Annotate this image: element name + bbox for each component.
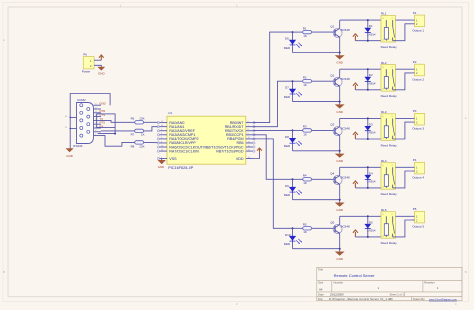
wire LED return [293,52,340,54]
svg-text:COM2: COM2 [77,98,86,102]
svg-text:U1: U1 [168,111,172,115]
U1 right pins [246,121,255,159]
svg-text:Output 2: Output 2 [412,77,424,81]
svg-text:Output 3: Output 3 [412,127,424,131]
svg-text:Remote Control Server: Remote Control Server [334,273,376,278]
svg-text:VSS: VSS [169,157,177,161]
svg-text:B: B [465,270,467,274]
svg-text:RL4: RL4 [381,159,387,163]
svg-text:Number: Number [334,281,344,285]
wire relay to P2 pin2 [393,73,412,90]
wire junction serial [114,127,116,133]
relay RL2 switch [392,69,394,76]
wire RB2 to stage3 [253,129,293,131]
wire stage 1 input row [293,31,303,33]
wire Q2 collector to relay coil [339,69,341,77]
svg-text:Q2: Q2 [330,74,334,78]
relay RL2 coil [385,69,387,76]
svg-text:Reed Relay: Reed Relay [381,143,398,147]
relay RL5 coil [385,216,387,223]
ground symbol stage 1 [335,55,345,59]
ground symbol (power section) [97,67,105,71]
svg-text:RED: RED [284,193,291,197]
wire RB3 to stage4 [253,135,293,179]
wire TX to R6 [101,120,135,122]
resistor R7 1K [135,129,144,132]
power VCC arrow stage 2 [353,83,358,90]
svg-text:VDD: VDD [236,157,244,161]
wire VCC to relay coil bottom [355,187,386,189]
power VCC arrow (top-left) [99,55,104,60]
ground symbol stage 3 [335,154,345,158]
svg-text:1N914: 1N914 [367,180,376,184]
svg-text:Title: Title [318,268,323,272]
wire VCC to relay coil bottom [355,40,386,42]
svg-text:Revision: Revision [424,281,435,285]
wire R4 to Q4 base [312,178,335,180]
svg-text:D1: D1 [369,24,373,28]
svg-text:Q5: Q5 [330,221,334,225]
wire relay to P5 pin2 [393,220,412,237]
svg-text:D6: D6 [285,37,289,41]
svg-text:www.CircuitDiagram.com: www.CircuitDiagram.com [429,298,457,301]
wire R2 to Q2 base [312,80,335,82]
wire relay to P3 pin2 [393,122,412,139]
power VCC arrow stage 5 [353,230,358,237]
svg-text:D3: D3 [369,122,373,126]
wire relay to P4 pin1 [396,166,412,168]
wire RB1 to stage2 [253,81,293,126]
wire VCC to relay coil bottom [355,138,386,140]
wire relay to P2 pin1 [396,68,412,70]
svg-text:Reed Relay: Reed Relay [381,45,398,49]
wire Q1 collector to relay coil [339,20,341,28]
relay RL1 switch [392,20,394,27]
svg-text:D7: D7 [285,86,289,90]
svg-text:1N914: 1N914 [367,82,376,86]
svg-text:R7: R7 [131,133,135,137]
U1 pin names [169,121,244,161]
svg-text:D5: D5 [369,220,373,224]
svg-text:1K: 1K [303,83,307,87]
svg-text:R1: R1 [303,26,307,30]
wire RTS to R7 [101,130,135,132]
svg-text:Q3: Q3 [330,123,334,127]
svg-text:GND: GND [336,61,344,65]
svg-text:RED: RED [284,144,291,148]
wire VCC to relay coil bottom [355,236,386,238]
svg-text:Power: Power [82,70,91,74]
wire Q1 emitter to ground [339,37,341,55]
svg-text:RL3: RL3 [381,110,387,114]
power VCC arrow stage 3 [353,132,358,139]
svg-text:RA7/OSC1/CLKIN: RA7/OSC1/CLKIN [169,149,199,153]
DB9 pin circles and stubs [80,104,101,138]
wire P6 pin2 to GND [94,65,101,67]
svg-text:1N914: 1N914 [367,131,376,135]
svg-text:Reed Relay: Reed Relay [381,94,398,98]
svg-text:22K: 22K [139,144,144,148]
wire relay to P5 pin1 [396,215,412,217]
svg-text:D2: D2 [369,73,373,77]
svg-text:RB7/T1OSI/PGD: RB7/T1OSI/PGD [216,149,244,153]
svg-text:RED: RED [284,95,291,99]
svg-text:A4: A4 [319,287,323,291]
wire relay to P4 pin2 [393,171,412,188]
svg-text:P2: P2 [413,60,417,64]
ground symbol stage 2 [335,104,345,108]
title block text [318,268,435,302]
svg-text:1K: 1K [303,230,307,234]
wire GND loop over DB9 [70,94,110,149]
svg-text:D9: D9 [285,184,289,188]
U1 left pins [157,121,167,160]
svg-text:GND: GND [66,154,74,158]
wire LED return [293,150,340,152]
wire RB0 to stage1 [253,32,293,123]
power VCC arrow at VDD [257,148,262,153]
wire stage 3 input row [293,129,303,131]
wire VCC to relay coil bottom [355,89,386,91]
svg-text:P5: P5 [413,207,417,211]
svg-text:Q1: Q1 [330,24,334,28]
svg-text:RL1: RL1 [381,12,387,16]
wire R8 to RA5 [144,141,159,143]
svg-text:RS232: RS232 [73,144,83,148]
relay RL4 coil [385,167,387,174]
wire stage 4 input row [293,178,303,180]
wire serial loop rectangle [97,114,115,128]
ground symbol (below DB9) [66,148,74,152]
svg-text:22K: 22K [139,117,144,121]
svg-text:D8: D8 [285,135,289,139]
wire R1 to Q1 base [312,31,335,33]
svg-text:Reed Relay: Reed Relay [381,192,398,196]
svg-text:D4: D4 [369,171,373,175]
svg-text:1K: 1K [141,133,145,137]
ground symbol stage 5 [335,252,345,256]
svg-text:R3: R3 [303,125,307,129]
svg-text:GND: GND [336,208,344,212]
svg-text:Reed Relay: Reed Relay [381,241,398,245]
wire RB4 to stage5 [253,139,293,228]
svg-text:GND: GND [99,102,105,106]
svg-text:P1: P1 [413,11,417,15]
svg-text:GND: GND [98,72,106,76]
wire LED return [293,248,340,250]
relay RL3 switch [392,118,394,125]
svg-text:Output 5: Output 5 [412,225,424,229]
svg-text:R4: R4 [303,174,307,178]
wire LED return [293,101,340,103]
relay RL1 coil [385,20,387,27]
svg-text:PIC16F628-I/P: PIC16F628-I/P [168,166,194,170]
wire R7 to RA1 [144,127,159,131]
svg-text:RED: RED [284,46,291,50]
svg-text:Output 1: Output 1 [412,28,424,32]
wire Q5 emitter to ground [339,234,341,252]
wire VDD to VCC [253,153,260,159]
svg-text:1N914: 1N914 [367,229,376,233]
wire Q4 collector to relay coil [339,167,341,175]
svg-text:Sheet 1 of 1: Sheet 1 of 1 [390,293,405,297]
wire LED return [293,199,340,201]
svg-text:GND: GND [158,165,164,169]
svg-text:D:\Projects\..\Remote Control: D:\Projects\..\Remote Control Server V1_… [329,297,393,301]
relay RL4 switch [392,167,394,174]
svg-text:A: A [465,116,467,120]
svg-text:R6: R6 [131,117,135,121]
power VCC arrow stage 4 [353,181,358,188]
svg-text:23/12/2009: 23/12/2009 [330,293,344,297]
wire Q5 collector to relay coil [339,216,341,224]
svg-text:1N914: 1N914 [367,32,376,36]
wire Q2 emitter to ground [339,86,341,104]
wire R3 to Q3 base [312,129,335,131]
svg-text:1K: 1K [303,181,307,185]
svg-text:B: B [3,270,5,274]
svg-text:P3: P3 [413,109,417,113]
svg-text:File:: File: [318,297,323,301]
wire relay to P3 pin1 [396,117,412,119]
wire stage 2 input row [293,80,303,82]
svg-text:1K: 1K [303,132,307,136]
relay RL3 coil [385,118,387,125]
svg-text:Q4: Q4 [330,172,334,176]
svg-text:GND: GND [336,257,344,261]
svg-text:R8: R8 [131,144,135,148]
svg-text:RL2: RL2 [381,61,387,65]
svg-text:RED: RED [284,242,291,246]
ground symbol at U1 VSS [161,159,163,161]
relay RL5 switch [392,216,394,223]
svg-text:RL5: RL5 [381,208,387,212]
wire RX to R8 [101,136,135,147]
wire relay to P1 pin1 [396,19,412,21]
svg-text:Date:: Date: [318,293,325,297]
wire stage 5 input row [293,227,303,229]
wire Q3 emitter to ground [339,136,341,154]
resistor R8 22K [135,141,144,144]
svg-text:GND: GND [336,110,344,114]
ground symbol stage 4 [335,203,345,207]
svg-text:Size: Size [318,281,324,285]
wire P6 pin1 to VCC [94,59,101,61]
wire R5 to Q5 base [312,227,335,229]
svg-text:P6: P6 [83,53,87,57]
wire Q3 collector to relay coil [339,118,341,126]
svg-text:1K: 1K [303,34,307,38]
DB9 shield stubs pins 10 11 [70,116,76,118]
svg-text:Output 4: Output 4 [412,176,424,180]
svg-text:A: A [3,38,5,42]
svg-text:R5: R5 [303,223,307,227]
title block [317,267,462,300]
svg-text:GND: GND [336,159,344,163]
svg-text:P4: P4 [413,158,417,162]
wire R6 to RA0 [144,121,159,123]
wire Q4 emitter to ground [339,185,341,203]
wire relay to P1 pin2 [393,24,412,41]
power VCC arrow stage 1 [353,34,358,41]
svg-text:Drawn By:: Drawn By: [413,297,426,301]
svg-text:R2: R2 [303,76,307,80]
